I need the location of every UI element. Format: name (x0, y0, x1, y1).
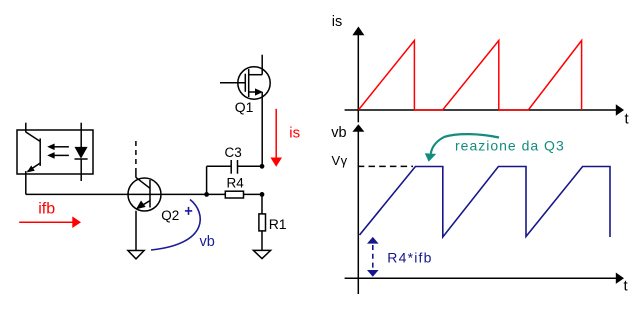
svg-text:Q1: Q1 (235, 99, 254, 115)
svg-text:ifb: ifb (38, 201, 55, 218)
svg-text:R4: R4 (227, 175, 245, 190)
svg-text:vb: vb (200, 234, 215, 250)
svg-text:reazione da Q3: reazione da Q3 (455, 138, 565, 154)
svg-text:Q2: Q2 (161, 208, 179, 223)
svg-text:C3: C3 (225, 145, 242, 160)
svg-text:R4*ifb: R4*ifb (387, 250, 432, 266)
svg-text:Vγ: Vγ (332, 153, 348, 168)
svg-text:R1: R1 (269, 216, 287, 232)
svg-text:is: is (332, 14, 342, 30)
svg-text:vb: vb (331, 125, 346, 141)
svg-text:is: is (289, 125, 300, 142)
